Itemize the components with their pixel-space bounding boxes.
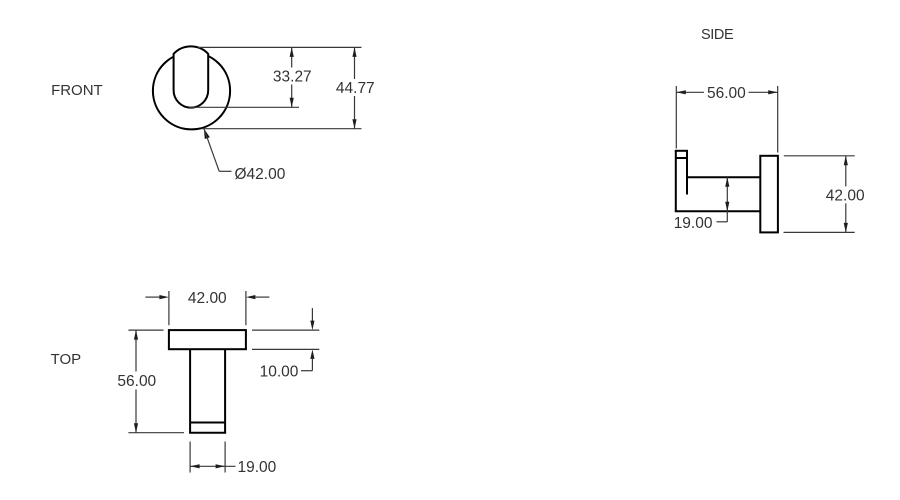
- extension line: top of hook tip: [198, 46, 362, 48]
- svg-text:19.00: 19.00: [674, 215, 713, 232]
- side view: arm/bar bottom edge: [675, 210, 761, 212]
- side 42.00 top extension line: [784, 155, 855, 157]
- leader line diagonal: [204, 129, 219, 172]
- extension line: bottom of U slot: [189, 106, 299, 108]
- top dimension 42.00 right arrow: [255, 296, 269, 298]
- top 19.00 right extension line: [224, 442, 226, 473]
- dimension 42.00 line: [845, 156, 847, 187]
- side view: wall plate rectangle: [760, 156, 778, 233]
- top view: stem step line: [190, 422, 225, 424]
- svg-text:SIDE: SIDE: [701, 27, 734, 43]
- top 56.00 bottom extension line: [128, 432, 184, 434]
- top dimension 19.00 line: [190, 465, 235, 467]
- svg-text:19.00: 19.00: [238, 459, 277, 476]
- svg-text:TOP: TOP: [51, 351, 82, 368]
- svg-text:Ø42.00: Ø42.00: [235, 166, 286, 183]
- side view: hook tip bar right edge: [686, 151, 688, 195]
- top view: stem left edge: [189, 349, 191, 433]
- top dimension 56.00 line: [135, 330, 137, 371]
- dimension 33.27 line: [291, 47, 293, 67]
- leader line horizontal tick: [219, 170, 231, 172]
- side 42.00 bottom extension line: [784, 231, 855, 233]
- svg-text:56.00: 56.00: [707, 85, 746, 102]
- svg-text:42.00: 42.00: [188, 290, 227, 307]
- top 19.00 left extension line: [189, 442, 191, 473]
- top 10.00 upper arrow: [311, 308, 313, 321]
- top view: plate rectangle: [169, 330, 246, 349]
- top dimension 42.00 left arrow: [145, 296, 160, 298]
- top 10.00 lower extension line: [252, 348, 319, 350]
- svg-text:33.27: 33.27: [273, 69, 312, 86]
- side view: hook tip bar left edge: [675, 151, 677, 212]
- top view: stem bottom edge: [189, 432, 226, 434]
- dimension 56.00 line: [676, 91, 704, 93]
- svg-text:42.00: 42.00: [826, 187, 865, 204]
- extension line: bottom of circle: [202, 128, 362, 130]
- dimension 44.77 line: [354, 47, 356, 79]
- top 10.00 lower arrow: [310, 349, 314, 359]
- side view: hook tip bar top edge: [675, 150, 688, 152]
- side view: arm top edge: [687, 176, 760, 178]
- front view: base plate circle: [153, 52, 230, 129]
- side dimension 19.00 line: [726, 177, 728, 222]
- top 42.00 right extension line: [245, 291, 247, 325]
- side 19.00 leader tick: [717, 221, 728, 223]
- side 56.00 right extension line: [777, 86, 779, 153]
- front view: hook tip U profile: [174, 46, 209, 107]
- top 56.00 top extension line: [128, 329, 163, 331]
- side 56.00 left extension line: [675, 86, 677, 149]
- top view: stem right edge: [224, 349, 226, 433]
- svg-text:44.77: 44.77: [336, 80, 375, 97]
- top 10.00 leader tick: [301, 370, 312, 372]
- top 10.00 upper extension line: [252, 329, 319, 331]
- top 42.00 left extension line: [168, 291, 170, 325]
- svg-text:10.00: 10.00: [260, 364, 299, 381]
- svg-text:FRONT: FRONT: [51, 82, 103, 99]
- leader arrow to circle edge: [204, 129, 210, 139]
- svg-text:56.00: 56.00: [117, 373, 156, 390]
- side view: hook tip step line: [676, 157, 687, 159]
